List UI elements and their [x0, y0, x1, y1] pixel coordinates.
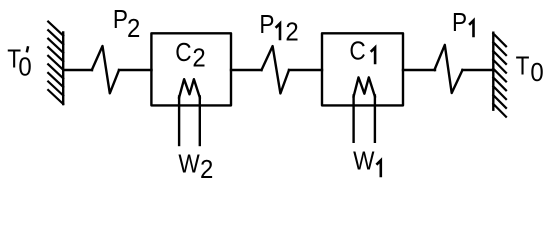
wire C1 to P1 [403, 69, 435, 71]
svg-text:C: C [349, 37, 365, 66]
label W2 [178, 150, 213, 184]
label T0' [7, 45, 31, 81]
svg-text:P: P [113, 5, 128, 34]
svg-text:2: 2 [285, 19, 298, 47]
label P12 [259, 11, 298, 47]
heater element in C1 [354, 77, 375, 141]
right wall [493, 33, 506, 117]
svg-text:W: W [353, 147, 374, 176]
svg-text:T: T [516, 52, 530, 81]
label T0 [516, 52, 544, 87]
svg-text:0: 0 [18, 54, 31, 82]
svg-text:P: P [259, 11, 274, 40]
label P1 [452, 8, 467, 37]
subscript 1 of P12 [276, 24, 280, 41]
subscript 1 of C1 [371, 48, 375, 65]
left wall [48, 22, 63, 104]
heater element in C2 [179, 79, 200, 145]
wire left wall to P2 [63, 69, 92, 71]
svg-text:2: 2 [192, 45, 205, 73]
svg-text:P: P [452, 8, 467, 37]
subscript 1 of P1 [469, 21, 473, 38]
label P2 [113, 5, 141, 43]
prime mark of T0' [27, 46, 28, 52]
svg-text:0: 0 [530, 59, 543, 87]
spring P2 [92, 46, 119, 93]
svg-text:W: W [178, 150, 199, 179]
wire P2 to C2 box [119, 69, 152, 71]
label C2 [175, 38, 205, 72]
wire P12 to C1 box [289, 69, 322, 71]
box C1 [322, 33, 403, 105]
svg-text:C: C [175, 38, 191, 67]
box C2 [151, 33, 231, 105]
wire P1 to right wall [462, 69, 493, 71]
wire C2 to P12 [231, 69, 262, 71]
subscript 1 of W1 [376, 160, 380, 177]
svg-text:2: 2 [200, 157, 213, 185]
label W1 [353, 147, 374, 176]
label C1 [349, 37, 365, 66]
spring P1 [434, 45, 462, 93]
spring P12 [262, 46, 290, 93]
svg-text:2: 2 [127, 15, 140, 43]
